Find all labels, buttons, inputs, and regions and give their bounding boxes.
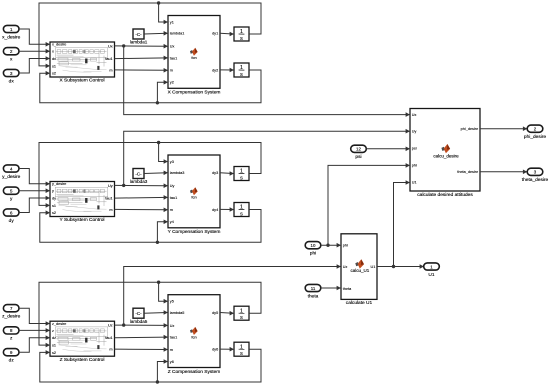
inport 12 psi — [351, 145, 367, 160]
wire phi branch to calculate desired attitudes — [328, 165, 409, 245]
svg-text:y2: y2 — [170, 81, 174, 85]
svg-text:phi_desire: phi_desire — [524, 134, 546, 140]
svg-text:x_desire: x_desire — [2, 34, 20, 40]
wire z to control — [19, 329, 49, 331]
svg-text:s: s — [240, 72, 243, 78]
wire tau1 control to compensation — [115, 57, 168, 60]
svg-text:phi_desire: phi_desire — [461, 127, 479, 131]
inport 8 z — [3, 327, 19, 342]
wire U1 to outport — [377, 266, 423, 268]
svg-text:m: m — [170, 69, 173, 73]
wire feedback y3 loop top — [39, 143, 261, 206]
constant -C- lambda3 — [130, 169, 148, 185]
MATLAB function calculate U1 — [341, 234, 377, 300]
inport 4 y_desire — [2, 165, 20, 180]
inport 10 phi — [305, 242, 321, 257]
svg-text:s2: s2 — [52, 351, 56, 355]
wire psi to calculate desired attitudes — [366, 148, 409, 150]
svg-text:y1: y1 — [170, 20, 174, 24]
fcn icon Y Compensation System — [190, 187, 198, 199]
svg-text:U1: U1 — [371, 265, 376, 269]
wire feedback y6 loop bottom — [40, 349, 261, 382]
wire lambda5 to compensation — [144, 312, 167, 315]
svg-text:z_desire: z_desire — [52, 322, 66, 326]
wire y1 drop to compensation — [159, 3, 167, 22]
outport 1 U1 — [424, 263, 440, 278]
wire tau1 control to compensation — [115, 196, 168, 199]
wire dy2 to integrator — [220, 69, 233, 71]
wire feedback y1 loop top — [39, 3, 261, 66]
svg-text:s: s — [240, 315, 243, 321]
svg-text:lambda3: lambda3 — [170, 171, 185, 175]
wire Uz control to compensation — [115, 324, 168, 326]
svg-text:m: m — [109, 348, 112, 352]
integrator 1/s for dy3 — [234, 167, 249, 182]
svg-text:psi: psi — [412, 147, 417, 151]
wire x_desire to control — [19, 29, 49, 44]
junction y1 feedback — [157, 1, 160, 4]
svg-text:tau1: tau1 — [170, 56, 177, 60]
svg-text:Uy: Uy — [412, 130, 417, 134]
svg-text:X Compensation System: X Compensation System — [168, 90, 221, 96]
integrator 1/s for dy5 — [234, 306, 249, 321]
svg-text:m: m — [109, 68, 112, 72]
wire m control to compensation — [115, 208, 168, 210]
wire dy5 to integrator — [220, 312, 233, 315]
svg-text:y: y — [52, 189, 54, 193]
X Subsystem Control preview sketch — [55, 48, 108, 67]
wire y4 rise to compensation — [157, 222, 167, 243]
svg-text:Uz: Uz — [170, 324, 175, 328]
svg-text:lambda5: lambda5 — [170, 311, 185, 315]
integrator 1/s for dy4 — [234, 203, 249, 218]
wire y2 rise to compensation — [157, 82, 167, 103]
subsystem Z Subsystem Control — [50, 321, 115, 356]
svg-text:dy6: dy6 — [212, 348, 218, 352]
outport 2 phi_desire — [524, 125, 546, 140]
svg-text:dx: dx — [9, 78, 15, 84]
svg-text:y5: y5 — [170, 300, 174, 304]
svg-text:s1: s1 — [52, 344, 56, 348]
svg-text:s: s — [240, 36, 243, 42]
svg-text:X Subsystem Control: X Subsystem Control — [59, 78, 104, 84]
svg-text:dy3: dy3 — [212, 171, 218, 175]
wire feedback y5 loop top — [39, 282, 261, 345]
svg-text:x_desire: x_desire — [52, 43, 66, 47]
svg-text:z_desire: z_desire — [2, 314, 20, 320]
svg-text:Ux: Ux — [412, 113, 417, 117]
wire dy4 to integrator — [220, 208, 233, 210]
wire y5 drop to compensation — [159, 282, 167, 301]
svg-text:calcu_U1: calcu_U1 — [351, 268, 370, 273]
svg-text:Uz: Uz — [343, 265, 348, 269]
svg-text:s: s — [240, 212, 243, 218]
svg-text:-C-: -C- — [135, 32, 142, 37]
svg-text:U1: U1 — [412, 181, 417, 185]
svg-text:y3: y3 — [170, 160, 174, 164]
outport 3 theta_desire — [522, 168, 549, 183]
svg-text:fcn: fcn — [191, 334, 196, 339]
MATLAB function Y Compensation System — [168, 155, 220, 228]
junction y3 feedback — [157, 141, 160, 144]
wire y to control — [19, 190, 49, 192]
svg-text:theta: theta — [343, 287, 352, 291]
Y Subsystem Control preview sketch — [55, 187, 108, 206]
svg-text:theta_desire: theta_desire — [457, 170, 478, 174]
svg-text:dy: dy — [52, 196, 56, 200]
svg-text:y4: y4 — [170, 220, 174, 224]
wire U1 branch to calculate desired attitudes — [394, 183, 410, 267]
junction U1 branch — [392, 265, 395, 268]
svg-text:lambda3: lambda3 — [130, 179, 148, 184]
svg-text:calcu_desire: calcu_desire — [433, 153, 459, 158]
junction y2 feedback — [156, 101, 159, 104]
inport 7 z_desire — [2, 305, 20, 320]
svg-text:fcn: fcn — [191, 195, 196, 200]
svg-text:Uy: Uy — [108, 184, 113, 188]
wire x to control — [19, 50, 49, 52]
svg-text:calculate U1: calculate U1 — [346, 300, 373, 306]
svg-text:dy: dy — [9, 218, 15, 224]
svg-text:m: m — [170, 348, 173, 352]
wire theta_desire to outport — [480, 171, 526, 173]
svg-text:-C-: -C- — [135, 171, 142, 176]
svg-text:tau1: tau1 — [105, 336, 112, 340]
inport 1 x_desire — [2, 25, 20, 40]
Z Subsystem Control preview sketch — [55, 327, 108, 346]
svg-text:x: x — [52, 50, 54, 54]
wire theta to calculate U1 — [321, 287, 340, 289]
wire y6 rise to compensation — [157, 362, 167, 383]
wire phi_desire to outport — [480, 128, 526, 130]
wire dz to control — [19, 338, 49, 353]
integrator 1/s for dy1 — [234, 27, 249, 42]
wire dy3 to integrator — [220, 172, 233, 175]
svg-text:s: s — [240, 351, 243, 357]
svg-text:phi: phi — [343, 244, 348, 248]
svg-text:lambda5: lambda5 — [130, 319, 148, 324]
svg-text:dz: dz — [52, 336, 56, 340]
svg-text:m: m — [109, 208, 112, 212]
junction phi branch — [326, 244, 329, 247]
svg-text:12: 12 — [356, 147, 361, 152]
inport 6 dy — [3, 209, 19, 224]
svg-text:Z Subsystem Control: Z Subsystem Control — [60, 357, 105, 363]
wire feedback y2 loop bottom — [40, 70, 261, 103]
subsystem Y Subsystem Control — [50, 182, 115, 217]
svg-text:dy2: dy2 — [212, 68, 218, 72]
inport 3 dx — [3, 69, 19, 84]
svg-text:Y Subsystem Control: Y Subsystem Control — [60, 217, 105, 223]
integrator 1/s for dy2 — [234, 63, 249, 78]
junction Uy branch — [122, 184, 125, 187]
inport 5 y — [3, 187, 19, 202]
junction y5 feedback — [157, 281, 160, 284]
svg-text:Z Compensation System: Z Compensation System — [168, 369, 221, 375]
MATLAB function Z Compensation System — [168, 295, 220, 368]
svg-text:y_desire: y_desire — [52, 182, 66, 186]
wire m control to compensation — [115, 69, 168, 71]
constant -C- lambda5 — [130, 308, 148, 324]
wire lambda3 to compensation — [144, 172, 167, 175]
svg-text:s1: s1 — [52, 204, 56, 208]
svg-text:dx: dx — [52, 57, 56, 61]
wire Uy to calculate desired attitudes — [124, 131, 409, 185]
inport 9 dz — [3, 349, 19, 364]
wire phi to calculate U1 — [321, 244, 340, 246]
svg-text:tau1: tau1 — [105, 197, 112, 201]
junction y6 feedback — [156, 380, 159, 383]
svg-text:Ux: Ux — [170, 45, 175, 49]
inport 11 theta — [305, 284, 321, 299]
junction Uz branch — [122, 323, 125, 326]
svg-text:lambda1: lambda1 — [170, 32, 185, 36]
svg-text:z: z — [52, 329, 54, 333]
svg-text:s2: s2 — [52, 211, 56, 215]
svg-text:psi: psi — [355, 154, 361, 160]
fcn icon calcu_U1 — [351, 259, 370, 273]
svg-text:s1: s1 — [52, 64, 56, 68]
svg-text:11: 11 — [311, 286, 316, 291]
svg-text:dy4: dy4 — [212, 208, 218, 212]
fcn icon Z Compensation System — [190, 327, 198, 339]
junction Ux branch — [122, 44, 125, 47]
svg-text:-C-: -C- — [135, 311, 142, 316]
svg-text:m: m — [170, 208, 173, 212]
inport 2 x — [3, 48, 19, 63]
svg-text:y6: y6 — [170, 360, 174, 364]
svg-text:calculate desired attitudes: calculate desired attitudes — [417, 192, 473, 198]
svg-text:dy5: dy5 — [212, 311, 218, 315]
svg-text:Ux: Ux — [108, 44, 113, 48]
svg-text:tau1: tau1 — [170, 196, 177, 200]
fcn icon calcu_desire — [433, 144, 459, 158]
wire y3 drop to compensation — [159, 143, 167, 162]
svg-text:theta: theta — [308, 293, 319, 299]
integrator 1/s for dy6 — [234, 342, 249, 357]
svg-text:tau1: tau1 — [105, 57, 112, 61]
svg-text:lambda1: lambda1 — [130, 40, 148, 45]
wire m control to compensation — [115, 348, 168, 350]
MATLAB function X Compensation System — [168, 16, 220, 89]
wire dy to control — [19, 198, 49, 213]
wire Uy control to compensation — [115, 184, 168, 186]
svg-text:phi: phi — [412, 164, 417, 168]
wire lambda1 to compensation — [144, 32, 167, 35]
svg-text:Y Compensation System: Y Compensation System — [168, 229, 221, 235]
svg-text:dy1: dy1 — [212, 32, 218, 36]
svg-text:y_desire: y_desire — [2, 174, 20, 180]
svg-text:s: s — [240, 176, 243, 182]
svg-text:U1: U1 — [428, 272, 434, 278]
fcn icon X Compensation System — [190, 48, 198, 60]
wire Uz to calculate U1 — [124, 267, 340, 326]
svg-text:Uy: Uy — [170, 184, 175, 188]
svg-text:fcn: fcn — [191, 55, 196, 60]
MATLAB function calculate desired attitudes — [410, 109, 480, 192]
wire Ux to calculate desired attitudes — [124, 46, 409, 115]
junction y4 feedback — [156, 241, 159, 244]
wire Ux control to compensation — [115, 45, 168, 47]
wire dx to control — [19, 59, 49, 74]
svg-text:phi: phi — [310, 251, 316, 257]
subsystem X Subsystem Control — [50, 42, 115, 77]
svg-text:10: 10 — [311, 243, 316, 248]
svg-text:s2: s2 — [52, 72, 56, 76]
svg-text:dz: dz — [9, 358, 15, 364]
wire dy1 to integrator — [220, 32, 233, 35]
wire z_desire to control — [19, 308, 49, 323]
svg-text:theta_desire: theta_desire — [522, 177, 549, 183]
svg-text:tau1: tau1 — [170, 336, 177, 340]
wire feedback y4 loop bottom — [40, 210, 261, 243]
wire dy6 to integrator — [220, 348, 233, 350]
wire tau1 control to compensation — [115, 336, 168, 339]
wire y_desire to control — [19, 169, 49, 184]
constant -C- lambda1 — [130, 29, 148, 45]
svg-text:Uz: Uz — [108, 324, 113, 328]
